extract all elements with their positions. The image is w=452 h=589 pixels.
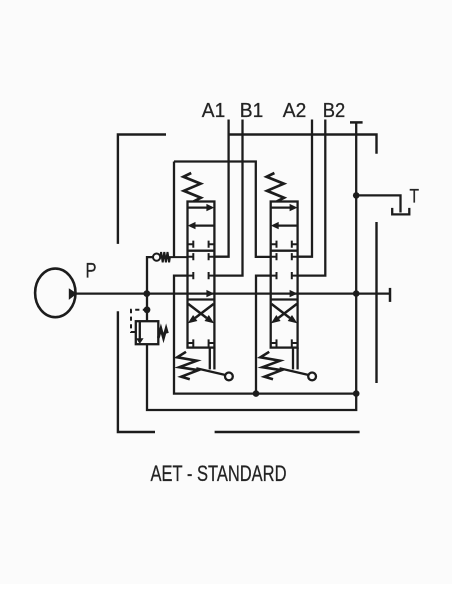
svg-text:P: P <box>86 258 97 282</box>
svg-text:AET - STANDARD: AET - STANDARD <box>151 461 287 486</box>
svg-text:T: T <box>410 185 420 207</box>
svg-text:B2: B2 <box>323 99 346 122</box>
svg-text:B1: B1 <box>240 99 264 122</box>
svg-text:A2: A2 <box>283 99 307 122</box>
svg-text:A1: A1 <box>202 99 226 122</box>
